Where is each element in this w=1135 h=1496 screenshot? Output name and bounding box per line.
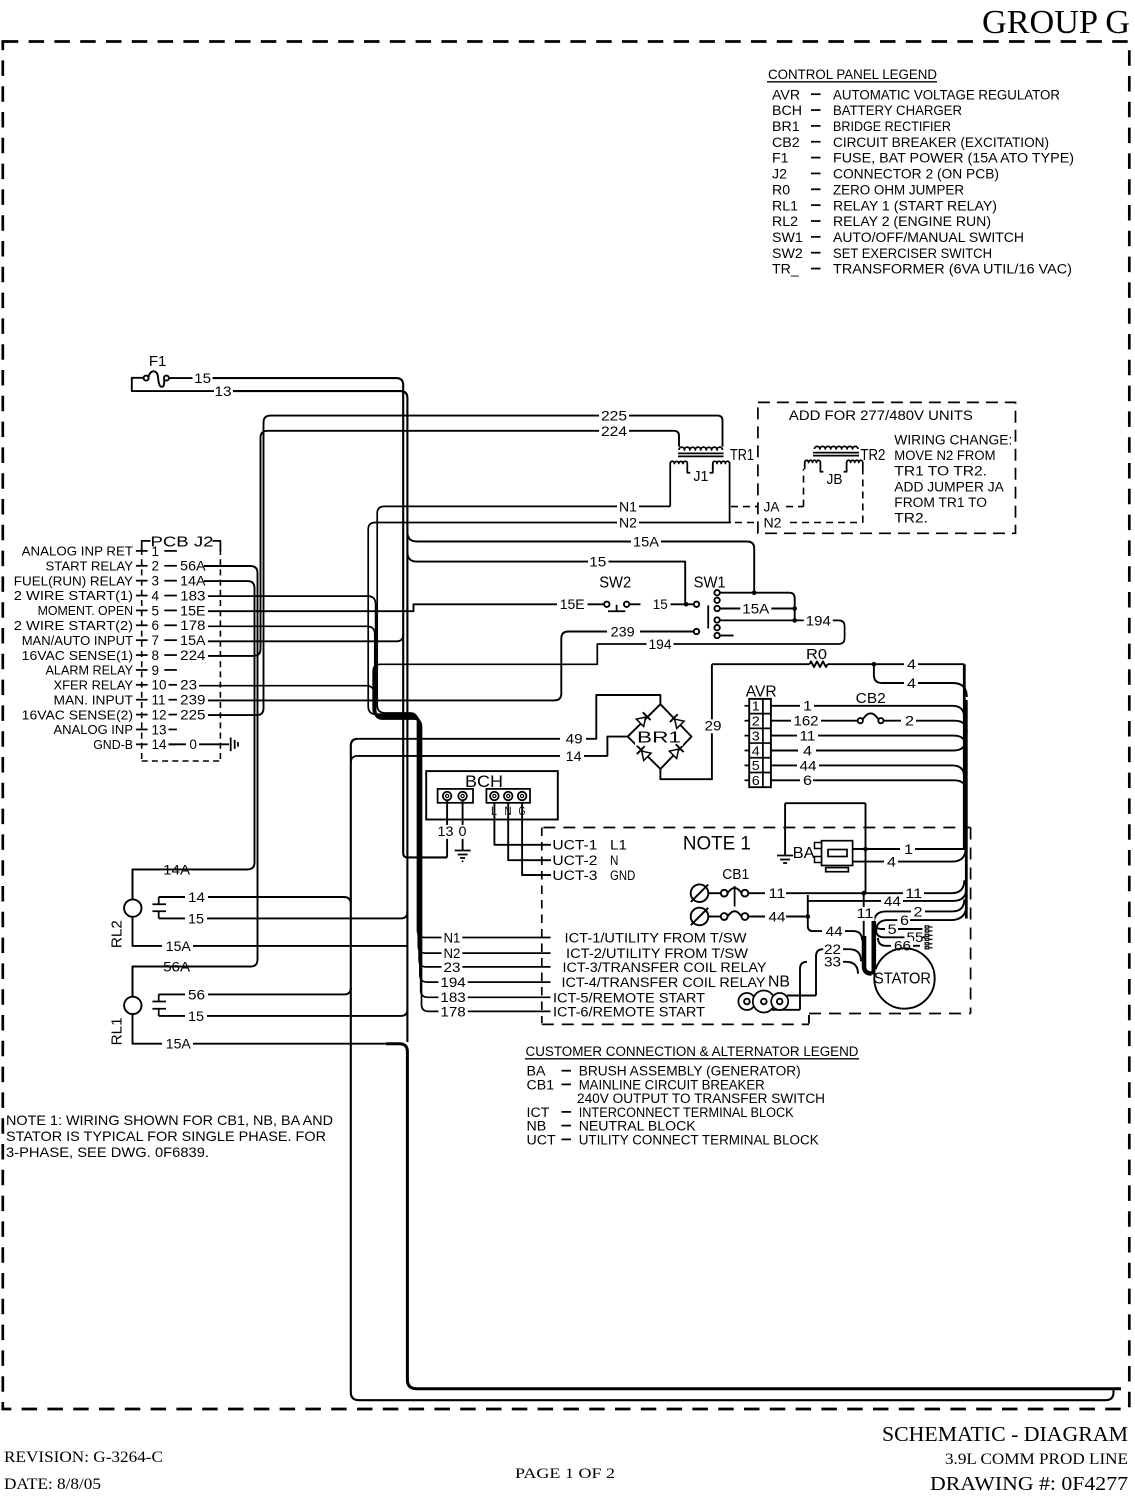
svg-text:G: G (519, 806, 526, 818)
svg-text:ZERO OHM JUMPER: ZERO OHM JUMPER (833, 182, 964, 198)
svg-text:J2: J2 (772, 167, 787, 183)
svg-text:10: 10 (152, 678, 167, 693)
svg-text:23: 23 (180, 678, 197, 693)
svg-text:14: 14 (188, 890, 205, 906)
svg-text:TR_: TR_ (772, 262, 800, 278)
svg-text:NOTE 1: NOTE 1 (683, 834, 751, 855)
svg-text:RL2: RL2 (109, 920, 126, 948)
svg-text:3: 3 (752, 728, 760, 743)
svg-text:TR2: TR2 (860, 447, 885, 464)
svg-text:44: 44 (769, 909, 786, 925)
svg-text:TR1: TR1 (730, 447, 754, 464)
svg-text:2 WIRE START(2): 2 WIRE START(2) (14, 618, 133, 633)
svg-text:N: N (505, 806, 512, 818)
svg-text:15A: 15A (180, 633, 205, 648)
svg-text:ADD JUMPER JA: ADD JUMPER JA (894, 479, 1004, 495)
svg-text:225: 225 (180, 707, 205, 722)
svg-text:F1: F1 (149, 353, 167, 370)
svg-text:TRANSFORMER (6VA UTIL/16 VAC): TRANSFORMER (6VA UTIL/16 VAC) (833, 262, 1072, 278)
svg-text:56: 56 (188, 987, 205, 1003)
svg-text:56A: 56A (180, 559, 205, 574)
svg-text:RL2: RL2 (772, 214, 798, 230)
svg-text:RL1: RL1 (109, 1017, 126, 1045)
svg-text:CIRCUIT BREAKER (EXCITATION): CIRCUIT BREAKER (EXCITATION) (833, 135, 1049, 151)
svg-text:6: 6 (900, 913, 909, 929)
svg-text:1: 1 (904, 842, 913, 858)
svg-text:56A: 56A (163, 959, 191, 975)
svg-text:FUSE, BAT POWER (15A ATO TYPE): FUSE, BAT POWER (15A ATO TYPE) (833, 151, 1074, 167)
svg-text:FROM TR1 TO: FROM TR1 TO (894, 495, 987, 511)
svg-text:4: 4 (803, 743, 812, 759)
svg-text:START RELAY: START RELAY (46, 558, 134, 573)
svg-text:R0: R0 (772, 182, 790, 198)
svg-text:CB1: CB1 (722, 866, 749, 883)
svg-text:9: 9 (152, 663, 160, 678)
svg-text:MOVE N2 FROM: MOVE N2 FROM (894, 448, 995, 464)
svg-text:16VAC SENSE(1): 16VAC SENSE(1) (22, 648, 133, 663)
svg-text:1: 1 (752, 699, 760, 714)
svg-text:14: 14 (566, 749, 582, 765)
svg-text:CONTROL PANEL LEGEND: CONTROL PANEL LEGEND (768, 67, 937, 83)
svg-text:4: 4 (752, 743, 760, 758)
svg-text:R0: R0 (806, 646, 827, 663)
svg-text:MAN. INPUT: MAN. INPUT (54, 692, 134, 707)
svg-text:44: 44 (800, 758, 817, 774)
svg-text:BA: BA (793, 845, 815, 862)
svg-text:RELAY 2 (ENGINE RUN): RELAY 2 (ENGINE RUN) (833, 214, 991, 230)
svg-text:BR1: BR1 (637, 730, 681, 747)
svg-text:11: 11 (800, 729, 816, 745)
svg-text:14: 14 (152, 737, 168, 752)
svg-text:15E: 15E (180, 603, 205, 618)
svg-text:TR2.: TR2. (894, 511, 928, 527)
svg-text:BATTERY CHARGER: BATTERY CHARGER (833, 103, 962, 119)
svg-text:66: 66 (894, 939, 911, 955)
svg-text:8: 8 (152, 648, 160, 663)
svg-text:CB1: CB1 (527, 1077, 555, 1093)
svg-text:BCH: BCH (772, 103, 802, 119)
svg-text:2: 2 (752, 714, 760, 729)
svg-text:RL1: RL1 (772, 198, 798, 214)
svg-text:178: 178 (180, 618, 205, 633)
svg-text:ICT-4/TRANSFER COIL RELAY: ICT-4/TRANSFER COIL RELAY (562, 975, 767, 991)
svg-text:FUEL(RUN) RELAY: FUEL(RUN) RELAY (14, 573, 133, 588)
svg-text:15: 15 (653, 597, 668, 613)
svg-text:BRIDGE RECTIFIER: BRIDGE RECTIFIER (833, 119, 951, 135)
svg-text:7: 7 (152, 633, 160, 648)
svg-text:NOTE 1: WIRING SHOWN FOR CB1,: NOTE 1: WIRING SHOWN FOR CB1, NB, BA AND (6, 1113, 333, 1128)
svg-text:ICT-3/TRANSFER COIL RELAY: ICT-3/TRANSFER COIL RELAY (563, 960, 768, 976)
svg-text:GND-B: GND-B (93, 737, 133, 752)
svg-text:ICT-1/UTILITY FROM T/SW: ICT-1/UTILITY FROM T/SW (565, 931, 748, 947)
svg-text:13: 13 (152, 722, 167, 737)
svg-text:15A: 15A (633, 534, 660, 550)
svg-text:BR1: BR1 (772, 119, 800, 135)
svg-text:6: 6 (752, 773, 760, 788)
svg-text:194: 194 (440, 975, 465, 991)
svg-text:178: 178 (440, 1004, 465, 1020)
svg-text:15: 15 (188, 911, 204, 927)
svg-text:UTILITY CONNECT TERMINAL BLOCK: UTILITY CONNECT TERMINAL BLOCK (579, 1132, 820, 1148)
svg-text:4: 4 (152, 588, 160, 603)
svg-text:4: 4 (907, 657, 916, 673)
svg-text:224: 224 (180, 648, 206, 663)
svg-text:5: 5 (752, 758, 760, 773)
svg-text:13: 13 (215, 384, 232, 400)
svg-text:F1: F1 (772, 151, 789, 167)
svg-text:SCHEMATIC - DIAGRAM: SCHEMATIC - DIAGRAM (882, 1422, 1128, 1446)
svg-text:TR1 TO TR2.: TR1 TO TR2. (894, 464, 987, 480)
svg-text:DATE: 8/8/05: DATE: 8/8/05 (4, 1476, 101, 1493)
svg-text:33: 33 (824, 955, 841, 971)
svg-text:N1: N1 (444, 930, 461, 946)
svg-text:PCB J2: PCB J2 (151, 534, 214, 551)
svg-text:15: 15 (589, 555, 606, 571)
svg-text:UCT-2: UCT-2 (552, 853, 597, 869)
svg-text:183: 183 (180, 588, 205, 603)
svg-text:L: L (491, 806, 498, 818)
svg-text:WIRING CHANGE:: WIRING CHANGE: (894, 433, 1012, 449)
svg-text:15: 15 (188, 1009, 204, 1025)
svg-text:CUSTOMER CONNECTION & ALTERNAT: CUSTOMER CONNECTION & ALTERNATOR LEGEND (526, 1044, 859, 1060)
svg-text:CB2: CB2 (772, 135, 800, 151)
svg-text:0: 0 (459, 824, 467, 840)
svg-text:ANALOG INP RET: ANALOG INP RET (22, 544, 133, 559)
svg-text:J1: J1 (693, 469, 708, 485)
svg-text:GND: GND (610, 868, 635, 884)
svg-text:NB: NB (768, 974, 790, 991)
svg-text:49: 49 (566, 732, 583, 748)
svg-text:5: 5 (152, 603, 160, 618)
svg-text:12: 12 (152, 707, 167, 722)
svg-text:15: 15 (194, 371, 211, 387)
svg-text:L1: L1 (610, 838, 627, 854)
svg-text:194: 194 (806, 613, 831, 629)
svg-text:JA: JA (764, 500, 781, 516)
svg-text:1: 1 (152, 544, 160, 559)
svg-text:STATOR IS TYPICAL FOR SINGLE P: STATOR IS TYPICAL FOR SINGLE PHASE. FOR (6, 1129, 326, 1144)
svg-text:MAN/AUTO INPUT: MAN/AUTO INPUT (22, 633, 133, 648)
svg-text:ADD FOR 277/480V UNITS: ADD FOR 277/480V UNITS (789, 408, 973, 424)
svg-text:MOMENT. OPEN: MOMENT. OPEN (38, 603, 133, 618)
svg-text:11: 11 (905, 886, 922, 902)
svg-text:2 WIRE START(1): 2 WIRE START(1) (14, 588, 133, 603)
svg-text:ICT-6/REMOTE START: ICT-6/REMOTE START (553, 1004, 705, 1020)
svg-text:N: N (610, 853, 618, 869)
svg-text:REVISION: G-3264-C: REVISION: G-3264-C (4, 1449, 163, 1466)
svg-text:29: 29 (705, 718, 722, 734)
svg-text:225: 225 (601, 409, 627, 425)
svg-text:4: 4 (887, 855, 896, 871)
svg-text:13: 13 (438, 824, 454, 840)
svg-text:11: 11 (152, 693, 166, 708)
svg-text:0: 0 (189, 737, 197, 752)
svg-text:CONNECTOR 2 (ON PCB): CONNECTOR 2 (ON PCB) (833, 167, 999, 183)
svg-text:ANALOG INP: ANALOG INP (54, 722, 134, 737)
svg-text:6: 6 (152, 618, 160, 633)
svg-text:UCT-3: UCT-3 (552, 868, 597, 884)
svg-text:15A: 15A (166, 1037, 192, 1053)
svg-text:2: 2 (905, 714, 914, 730)
svg-text:JB: JB (827, 472, 843, 488)
svg-text:SW1: SW1 (772, 230, 803, 246)
svg-text:DRAWING #: 0F4277: DRAWING #: 0F4277 (930, 1473, 1128, 1495)
svg-text:N2: N2 (619, 515, 637, 531)
svg-text:CB2: CB2 (856, 690, 886, 707)
svg-text:194: 194 (649, 637, 672, 653)
svg-text:SW2: SW2 (772, 246, 803, 262)
svg-text:3: 3 (152, 574, 160, 589)
svg-text:AVR: AVR (746, 684, 777, 701)
svg-text:2: 2 (914, 904, 923, 920)
svg-text:14A: 14A (163, 862, 191, 878)
svg-text:5: 5 (888, 922, 897, 938)
svg-text:14A: 14A (180, 574, 205, 589)
svg-text:SW1: SW1 (694, 574, 726, 591)
svg-text:N2: N2 (764, 516, 782, 532)
svg-text:44: 44 (884, 894, 901, 910)
svg-text:4: 4 (907, 676, 916, 692)
svg-text:11: 11 (769, 886, 786, 902)
svg-text:AUTOMATIC VOLTAGE REGULATOR: AUTOMATIC VOLTAGE REGULATOR (833, 87, 1060, 103)
svg-text:239: 239 (611, 624, 635, 640)
svg-text:3.9L COMM PROD LINE: 3.9L COMM PROD LINE (945, 1451, 1128, 1468)
svg-text:162: 162 (794, 714, 819, 730)
svg-text:UCT: UCT (527, 1132, 556, 1148)
svg-text:3-PHASE, SEE DWG. 0F6839.: 3-PHASE, SEE DWG. 0F6839. (6, 1145, 209, 1160)
svg-text:PAGE 1 OF 2: PAGE 1 OF 2 (515, 1466, 615, 1482)
svg-text:15A: 15A (166, 939, 192, 955)
svg-text:XFER RELAY: XFER RELAY (54, 678, 134, 693)
svg-text:AUTO/OFF/MANUAL SWITCH: AUTO/OFF/MANUAL SWITCH (833, 230, 1024, 246)
svg-text:15E: 15E (560, 597, 585, 613)
svg-text:RELAY 1 (START RELAY): RELAY 1 (START RELAY) (833, 198, 997, 214)
svg-text:224: 224 (601, 424, 627, 440)
svg-text:15A: 15A (742, 601, 770, 617)
svg-text:UCT-1: UCT-1 (552, 838, 597, 854)
svg-text:SW2: SW2 (599, 574, 631, 591)
svg-text:GROUP G: GROUP G (982, 4, 1130, 41)
svg-text:1: 1 (803, 699, 812, 715)
svg-text:AVR: AVR (772, 87, 800, 103)
svg-text:2: 2 (152, 559, 160, 574)
svg-text:23: 23 (444, 960, 461, 976)
svg-text:239: 239 (180, 693, 205, 708)
svg-text:16VAC SENSE(2): 16VAC SENSE(2) (22, 707, 133, 722)
svg-text:STATOR: STATOR (874, 971, 931, 988)
svg-text:N1: N1 (619, 499, 637, 515)
svg-text:44: 44 (826, 924, 843, 940)
svg-text:11: 11 (857, 906, 874, 922)
svg-text:6: 6 (803, 773, 812, 789)
svg-text:ALARM RELAY: ALARM RELAY (46, 663, 134, 678)
svg-text:SET EXERCISER SWITCH: SET EXERCISER SWITCH (833, 246, 992, 262)
